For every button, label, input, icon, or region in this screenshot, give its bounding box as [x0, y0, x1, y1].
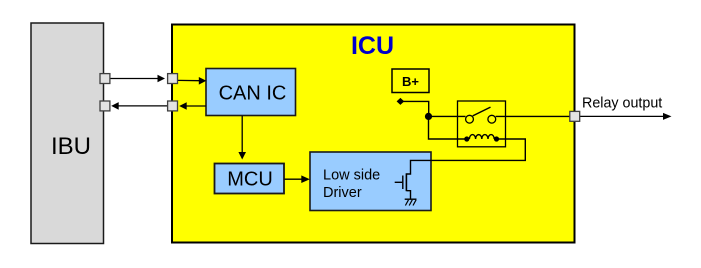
- wire B+ to junction: [403, 101, 429, 113]
- wire IBU to ICU (top, CAN Tx): [110, 75, 165, 83]
- node connector ICU pin bottom: [168, 101, 178, 111]
- relay contact right: [488, 115, 496, 123]
- svg-text:Relay output: Relay output: [582, 95, 662, 111]
- svg-text:ICU: ICU: [351, 32, 394, 60]
- svg-text:MCU: MCU: [227, 169, 273, 191]
- wire coil to MOSFET drain: [407, 139, 526, 174]
- relay contact left: [466, 115, 474, 123]
- block ICU: [172, 25, 575, 243]
- ground: [405, 199, 417, 205]
- node connector relay output pin: [570, 111, 580, 121]
- wire CAN IC to ICU connector (bottom): [179, 102, 206, 110]
- wire relay output arrow: [580, 95, 672, 120]
- wire junction to relay switch: [429, 115, 466, 117]
- block MCU: [215, 164, 285, 194]
- node connector IBU pin top: [100, 74, 110, 84]
- wire relay switch to output connector: [496, 115, 570, 117]
- wire ICU connector to CAN IC: [178, 77, 206, 85]
- block Low side Driver: [310, 152, 431, 211]
- node junction dot: [425, 113, 432, 120]
- wire junction down to coil: [429, 116, 465, 139]
- block CAN IC: [206, 69, 296, 116]
- node connector IBU pin bottom: [100, 101, 110, 111]
- wire ICU connector to IBU (bottom, CAN Rx): [111, 102, 167, 110]
- relay K1 box: [458, 101, 506, 147]
- node B+ diamond terminal: [397, 98, 405, 105]
- node connector ICU pin top: [168, 74, 178, 84]
- node B+ box: [392, 69, 429, 93]
- transistor Q1 (low-side MOSFET): [395, 173, 411, 199]
- svg-text:B+: B+: [402, 74, 419, 89]
- svg-text:IBU: IBU: [51, 133, 91, 160]
- svg-text:Driver: Driver: [323, 185, 362, 201]
- block IBU: [31, 23, 104, 244]
- relay coil: [464, 135, 499, 142]
- wire MCU to Low side Driver: [285, 175, 310, 183]
- relay switch blade: [473, 107, 491, 116]
- wire CAN IC to MCU: [238, 116, 246, 160]
- svg-text:Low side: Low side: [323, 168, 380, 184]
- svg-text:CAN IC: CAN IC: [219, 83, 287, 105]
